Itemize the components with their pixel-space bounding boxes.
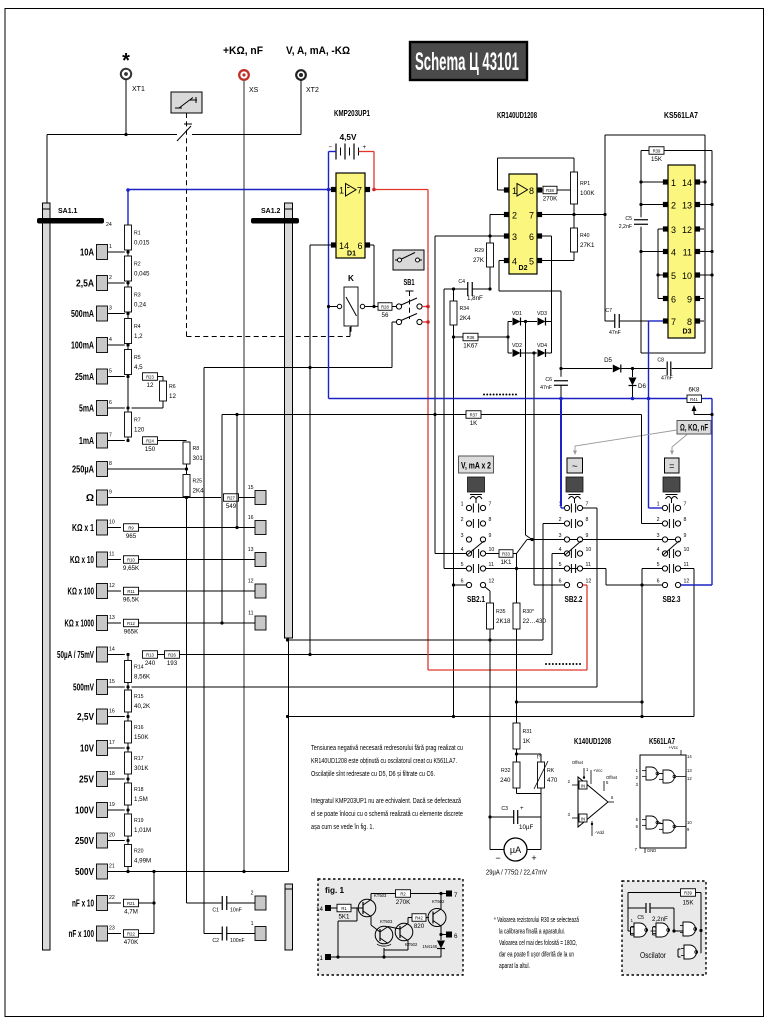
- svg-text:500mV: 500mV: [73, 683, 94, 694]
- svg-text:9: 9: [109, 490, 112, 496]
- svg-text:150K: 150K: [134, 734, 149, 741]
- wire d3 left rail upper: [640, 151, 642, 218]
- wire d3 pin13 east: [700, 204, 712, 206]
- svg-text:1: 1: [512, 186, 517, 196]
- junction divider: [126, 808, 129, 811]
- svg-text:R16: R16: [134, 725, 144, 731]
- dashed mechanical link breaker: [186, 113, 188, 337]
- svg-text:R39: R39: [684, 890, 692, 895]
- svg-text:12: 12: [489, 579, 495, 585]
- svg-text:11: 11: [248, 611, 253, 617]
- wire divider segment: [127, 683, 129, 691]
- svg-text:−: −: [328, 144, 332, 151]
- wire SB2.1 pin5 link: [444, 568, 466, 570]
- wire channel x222: [221, 415, 223, 624]
- wire d3 pin1 west: [641, 181, 663, 183]
- svg-text:11: 11: [109, 552, 114, 558]
- junction chain: [126, 343, 129, 346]
- junction SB2.1 pin6: [452, 583, 455, 586]
- svg-text:Valoarea cel mai des folosită: Valoarea cel mai des folosită = 180Ω,: [499, 940, 577, 947]
- svg-text:10: 10: [489, 547, 495, 553]
- svg-text:2: 2: [559, 517, 562, 523]
- svg-text:10A: 10A: [80, 248, 94, 259]
- contact SA1.2 pin 12: [248, 579, 266, 599]
- wire chain segment: [127, 312, 129, 319]
- svg-text:1: 1: [657, 502, 660, 508]
- junction d3 pin11: [710, 250, 713, 253]
- resistor R27: [224, 494, 239, 510]
- wire blue right drop: [711, 399, 713, 586]
- wire meter right riser: [540, 817, 542, 850]
- resistor R17: [125, 752, 150, 774]
- diode VD3: [537, 311, 547, 326]
- switch SA1.2 shaft: [261, 203, 293, 638]
- resistor R2: [125, 256, 151, 281]
- switch group SB2.3: [657, 502, 690, 605]
- potentiometer RP1: [571, 172, 596, 204]
- svg-text:8: 8: [687, 317, 692, 327]
- junction C4/R34: [452, 287, 455, 290]
- wire d3 pin9 stub: [700, 298, 704, 300]
- junction bridge left: [506, 335, 509, 338]
- svg-text:10: 10: [687, 820, 692, 825]
- svg-text:+Vcc: +Vcc: [593, 768, 602, 773]
- svg-text:+Vcc: +Vcc: [669, 745, 678, 750]
- svg-text:1,2: 1,2: [134, 333, 143, 340]
- range contact 100mA (pin 4): [71, 337, 112, 353]
- wire red pin7 east: [374, 189, 428, 191]
- wire R22 right: [139, 933, 155, 935]
- svg-text:13: 13: [682, 201, 692, 211]
- junction SB1 upper red: [426, 305, 430, 309]
- junction chain: [126, 250, 129, 253]
- svg-text:C2: C2: [212, 938, 219, 944]
- wire bus y414 right: [481, 414, 642, 416]
- wire stub nF x 10: [108, 902, 122, 904]
- junction Omega row: [185, 496, 188, 499]
- svg-text:17: 17: [109, 740, 115, 746]
- svg-text:11: 11: [683, 248, 692, 258]
- svg-text:9: 9: [687, 827, 690, 832]
- svg-text:1,8nF: 1,8nF: [467, 295, 483, 302]
- svg-text:R32: R32: [501, 768, 511, 774]
- svg-text:2,5A: 2,5A: [76, 279, 95, 290]
- fig1 resistor 270K: [396, 890, 412, 906]
- svg-text:24: 24: [106, 222, 112, 228]
- switch group SB2.1: [461, 502, 495, 605]
- svg-text:3: 3: [461, 533, 464, 539]
- svg-text:96,5K: 96,5K: [123, 596, 140, 603]
- svg-text:10nF: 10nF: [230, 908, 242, 914]
- svg-text:19: 19: [109, 802, 115, 808]
- svg-text:12: 12: [687, 776, 692, 781]
- resistor R4: [125, 319, 144, 344]
- junction pin14/y367: [308, 366, 311, 369]
- junction d3 pin4 rail: [639, 250, 642, 253]
- fig1 transistor KT503 #1: [358, 893, 387, 917]
- wire pin2 drop: [489, 215, 491, 244]
- svg-text:15: 15: [109, 679, 115, 685]
- range contact 1mA (pin 7): [79, 433, 112, 449]
- wire RK bottom: [540, 788, 542, 794]
- svg-text:250µA: 250µA: [72, 465, 94, 476]
- wire osc g1-g2: [651, 930, 657, 932]
- label box Ω KΩ nF: [677, 421, 711, 435]
- pointer to SB2.2 selector: [573, 430, 677, 455]
- wire R30 down: [516, 629, 518, 723]
- wire d3 pin3 west: [658, 228, 663, 230]
- resistor R15: [125, 690, 152, 712]
- svg-text:6: 6: [671, 295, 676, 305]
- fig1 wire q1 stub: [357, 907, 363, 909]
- wire stub 100V: [108, 809, 125, 811]
- fig1 wire q2-q3: [388, 927, 400, 930]
- svg-text:5: 5: [606, 780, 609, 785]
- svg-text:fig. 1: fig. 1: [325, 886, 345, 895]
- svg-text:56: 56: [382, 312, 389, 319]
- svg-text:14: 14: [339, 241, 349, 251]
- wire SB2.1 pin4 link: [435, 553, 466, 555]
- svg-text:4: 4: [461, 547, 464, 553]
- resistor R41: [687, 387, 702, 403]
- svg-text:12: 12: [169, 393, 176, 400]
- wire d3 pin7 blue: [649, 320, 664, 322]
- wire divider segment: [127, 774, 129, 783]
- svg-text:7: 7: [586, 502, 589, 508]
- svg-text:IN: IN: [581, 784, 585, 789]
- svg-text:7: 7: [109, 433, 112, 439]
- svg-text:8: 8: [529, 186, 534, 196]
- svg-text:150: 150: [145, 446, 156, 453]
- svg-text:6K8: 6K8: [688, 387, 700, 394]
- wire pin4 loop: [499, 290, 561, 292]
- svg-text:la calibrarea finală a aparatu: la calibrarea finală a aparatului.: [499, 929, 565, 936]
- wire divider segment: [127, 712, 129, 721]
- svg-text:KT503: KT503: [380, 919, 393, 924]
- svg-text:2: 2: [251, 891, 254, 897]
- wire pin6 east: [369, 244, 375, 246]
- svg-text:Oscilațiile sînt redresate cu: Oscilațiile sînt redresate cu D5, D6 și …: [311, 771, 435, 778]
- switch SA1.2 lower shaft: [285, 884, 293, 950]
- wire SB2.3 pin11 link: [681, 568, 694, 570]
- svg-text:47nF: 47nF: [661, 376, 673, 382]
- range contact 500mA (pin 3): [71, 306, 112, 322]
- wire pin8 east: [542, 189, 571, 191]
- wire bus y716: [288, 716, 695, 718]
- fig1 wire q1 down: [370, 917, 372, 926]
- svg-text:27K1: 27K1: [580, 242, 595, 249]
- wire pin3 drop: [434, 236, 436, 554]
- svg-text:R24: R24: [146, 438, 154, 443]
- wire SB2.2 pin12 red: [583, 584, 587, 586]
- svg-text:2K4: 2K4: [460, 315, 472, 322]
- wire bus y640: [288, 639, 544, 641]
- svg-text:16: 16: [109, 709, 115, 715]
- resistor R34: [450, 301, 471, 325]
- svg-text:100nF: 100nF: [230, 938, 245, 944]
- resistor R25: [183, 475, 204, 497]
- wire SB2.3 pin5 drop: [641, 569, 643, 717]
- range contact 10A (pin 1): [80, 244, 112, 260]
- svg-text:R40: R40: [580, 233, 590, 239]
- wire bus y702: [517, 701, 643, 703]
- selector SB2.3 symbol =: [665, 458, 680, 473]
- contact SA1.2 pin 11: [248, 611, 266, 631]
- svg-text:500V: 500V: [75, 867, 94, 878]
- junction VD bottom tap: [532, 351, 535, 354]
- svg-text:8: 8: [684, 517, 687, 523]
- wire branch RK: [517, 753, 542, 755]
- junction C6 top: [559, 367, 562, 370]
- osc wire left drop: [627, 893, 629, 932]
- svg-text:C1: C1: [212, 908, 219, 914]
- resistor R5: [125, 350, 144, 375]
- svg-text:7: 7: [489, 502, 492, 508]
- svg-text:1: 1: [109, 244, 112, 250]
- svg-text:Ω, KΩ, nF: Ω, KΩ, nF: [680, 423, 708, 433]
- svg-text:R2: R2: [400, 891, 406, 896]
- svg-text:9: 9: [684, 533, 687, 539]
- svg-text:KT502: KT502: [405, 942, 418, 947]
- resistor R36: [454, 333, 509, 349]
- svg-text:3: 3: [657, 533, 660, 539]
- relay K: [329, 287, 371, 326]
- junction XT1/top wire: [124, 133, 127, 136]
- svg-text:7: 7: [635, 847, 638, 852]
- svg-text:15: 15: [248, 485, 254, 491]
- wire SB2.2 pin7 drop: [596, 508, 598, 687]
- resistor R8: [183, 442, 203, 464]
- svg-text:el se poate înlocui cu o schem: el se poate înlocui cu o schemă realizat…: [311, 811, 463, 818]
- switch group SB2.2: [559, 502, 592, 605]
- svg-text:12: 12: [684, 579, 690, 585]
- junction R30/y702: [515, 700, 518, 703]
- wire row539 inner: [570, 539, 578, 541]
- svg-text:12: 12: [147, 382, 154, 389]
- wire R25 bottom: [186, 497, 188, 904]
- junction divider: [126, 715, 129, 718]
- resistor R16: [125, 721, 150, 743]
- junction R29 top: [488, 234, 491, 237]
- svg-text:SB1: SB1: [404, 278, 415, 287]
- osc wire in1: [628, 930, 631, 932]
- wire C4 corner drop: [443, 289, 445, 569]
- junction divider: [126, 746, 129, 749]
- wire blue junction to R1: [127, 190, 129, 225]
- fig1 wire q4 emitter: [440, 926, 442, 935]
- junction d3 pin10: [710, 273, 713, 276]
- wire divider segment: [127, 867, 129, 872]
- wire KΩx1 row: [139, 527, 256, 529]
- wire R6 bottom: [162, 401, 164, 408]
- wire SB2.3 pin2 link: [642, 523, 663, 525]
- dotted mark upper: [483, 394, 485, 396]
- svg-text:5mA: 5mA: [79, 404, 94, 415]
- svg-text:25V: 25V: [79, 775, 94, 786]
- wire pin4 drop: [498, 261, 500, 292]
- svg-text:R1: R1: [341, 906, 347, 911]
- diode VD1: [512, 311, 522, 326]
- svg-text:2: 2: [568, 779, 571, 784]
- fig1 pin 6: [441, 932, 458, 941]
- push-button selector SB2.3: [663, 477, 680, 503]
- wire SB2.3 pin12 blue: [681, 584, 712, 586]
- wire R21 right: [139, 902, 155, 904]
- wire SB2.1 pin6 link: [454, 584, 467, 586]
- junction row539/bridge: [530, 538, 533, 541]
- junction divider: [126, 777, 129, 780]
- wire stub 2,5A: [108, 282, 125, 284]
- svg-text:13: 13: [109, 615, 115, 621]
- svg-text:5: 5: [636, 817, 639, 822]
- diode VD4: [537, 343, 547, 357]
- contact SA1.2 pin 2: [251, 891, 266, 911]
- wire stub 500mV: [108, 686, 125, 688]
- svg-text:R3: R3: [134, 293, 141, 299]
- junction KΩx1000/ch: [220, 621, 223, 624]
- svg-text:SB2.2: SB2.2: [565, 595, 583, 604]
- svg-text:2: 2: [636, 775, 639, 780]
- junction C4/R29: [488, 287, 491, 290]
- junction fig1 pin6: [439, 933, 442, 936]
- svg-text:C5: C5: [637, 915, 644, 921]
- wire d3 pin14 east: [700, 181, 705, 183]
- svg-text:GND: GND: [647, 848, 656, 853]
- svg-text:0,045: 0,045: [134, 271, 150, 278]
- svg-text:R41: R41: [690, 397, 698, 402]
- svg-text:R8: R8: [193, 446, 200, 452]
- wire d3 outer top: [605, 134, 705, 136]
- svg-text:Offset: Offset: [606, 775, 618, 780]
- svg-text:K: K: [348, 274, 354, 283]
- wire RP1 to R40: [573, 204, 575, 228]
- svg-text:5: 5: [559, 562, 562, 568]
- svg-text:R39: R39: [653, 148, 661, 153]
- junction D6 top: [631, 367, 634, 370]
- svg-text:K140UD1208: K140UD1208: [574, 737, 611, 746]
- resistor R21: [124, 899, 139, 915]
- wire row 539 mid: [532, 539, 564, 541]
- wire chain segment: [127, 437, 129, 441]
- junction osc right: [699, 929, 702, 932]
- svg-text:XS: XS: [249, 87, 259, 94]
- range contact 100V (pin 19): [75, 802, 115, 818]
- svg-text:C5: C5: [625, 216, 632, 222]
- wire pin1 west: [498, 189, 505, 191]
- junction pin6/relay wire: [372, 305, 375, 308]
- svg-text:Integratul KMP203UP1 nu are ec: Integratul KMP203UP1 nu are echivalent. …: [311, 798, 461, 805]
- junction chain: [126, 375, 129, 378]
- resistor R39: [641, 147, 712, 163]
- junction blue D6: [631, 397, 635, 401]
- svg-text:C3: C3: [501, 806, 508, 812]
- fig1 pin 14: [316, 905, 337, 913]
- wire stub 500mA: [108, 313, 125, 315]
- contact SA1.2 pin 15: [248, 485, 266, 505]
- wire KΩx1000 row: [139, 622, 256, 624]
- svg-text:14: 14: [682, 178, 692, 188]
- svg-text:IN: IN: [581, 817, 585, 822]
- svg-text:R38: R38: [546, 188, 554, 193]
- svg-text:R12: R12: [127, 621, 135, 626]
- wire feedback left: [497, 158, 499, 190]
- svg-text:VD2: VD2: [512, 343, 522, 349]
- resistor R3: [125, 287, 147, 312]
- fig1 wire q4 collector: [440, 894, 442, 910]
- wire R27 to contact: [239, 497, 256, 499]
- switch indicator box SB1: [393, 250, 424, 270]
- junction VD top tap: [524, 320, 527, 323]
- junction x237 bus: [235, 413, 238, 416]
- wire R13-R26: [158, 654, 165, 656]
- junction x642/y716: [640, 715, 643, 718]
- wire row 585 to SB2.3: [606, 584, 662, 586]
- svg-text:4: 4: [657, 547, 660, 553]
- svg-text:18: 18: [109, 771, 115, 777]
- oscillator container: [622, 881, 706, 975]
- svg-text:7: 7: [684, 502, 687, 508]
- svg-text:1: 1: [339, 186, 344, 196]
- svg-text:5K1: 5K1: [338, 913, 350, 920]
- svg-text:KΩ x 1000: KΩ x 1000: [65, 619, 95, 630]
- svg-text:D6: D6: [638, 383, 646, 390]
- wire pin2 west: [490, 214, 504, 216]
- svg-text:15K: 15K: [682, 900, 694, 907]
- wire d3 pin5 west: [658, 274, 663, 276]
- wire divider segment: [127, 743, 129, 752]
- resistor R14: [125, 661, 152, 683]
- wire SB2.2 pin11 link: [583, 568, 606, 570]
- wire R31 top: [516, 702, 518, 723]
- wire stub 250µA: [108, 468, 187, 470]
- svg-text:1: 1: [320, 955, 324, 962]
- junction chain: [126, 281, 129, 284]
- svg-text:VD1: VD1: [512, 311, 522, 317]
- resistor R32: [500, 762, 520, 788]
- svg-text:6: 6: [657, 579, 660, 585]
- wire blue pin7 drop: [648, 321, 650, 508]
- svg-text:V, A, mA, -KΩ: V, A, mA, -KΩ: [286, 45, 350, 57]
- switch SA1.2 contact bar: [251, 218, 299, 224]
- wire SB2.2 pin2 link: [543, 523, 564, 525]
- wire SB2.2 pin9 row: [583, 539, 663, 541]
- op-amp D2 KR140UD1208: [504, 174, 542, 274]
- wire SB2.2 pin5 inner: [570, 568, 578, 570]
- wire d3 pin4 west: [641, 251, 663, 253]
- svg-text:D1: D1: [347, 251, 356, 258]
- svg-text:250V: 250V: [75, 836, 94, 847]
- svg-text:XT2: XT2: [306, 87, 319, 94]
- svg-text:6: 6: [529, 232, 534, 242]
- wire R34 top: [453, 289, 455, 301]
- svg-text:RP1: RP1: [580, 181, 590, 187]
- wire bottoms join: [517, 793, 542, 795]
- junction d3 pin14: [703, 180, 706, 183]
- svg-text:R4: R4: [134, 324, 141, 330]
- svg-text:µA: µA: [510, 845, 521, 855]
- wire battery plus red: [359, 151, 375, 153]
- resistor R29: [473, 243, 494, 267]
- range contact KΩ x 1 (pin 10): [72, 520, 115, 536]
- range contact 250V (pin 20): [75, 833, 115, 849]
- svg-text:aparat la altul.: aparat la altul.: [499, 963, 530, 970]
- switch SA1.1 shaft: [43, 203, 78, 950]
- osc wire c5 drop: [673, 908, 675, 931]
- wire R24 to R8: [158, 440, 187, 442]
- wire chain segment: [127, 375, 129, 413]
- svg-text:7: 7: [671, 317, 676, 327]
- svg-text:4: 4: [559, 547, 562, 553]
